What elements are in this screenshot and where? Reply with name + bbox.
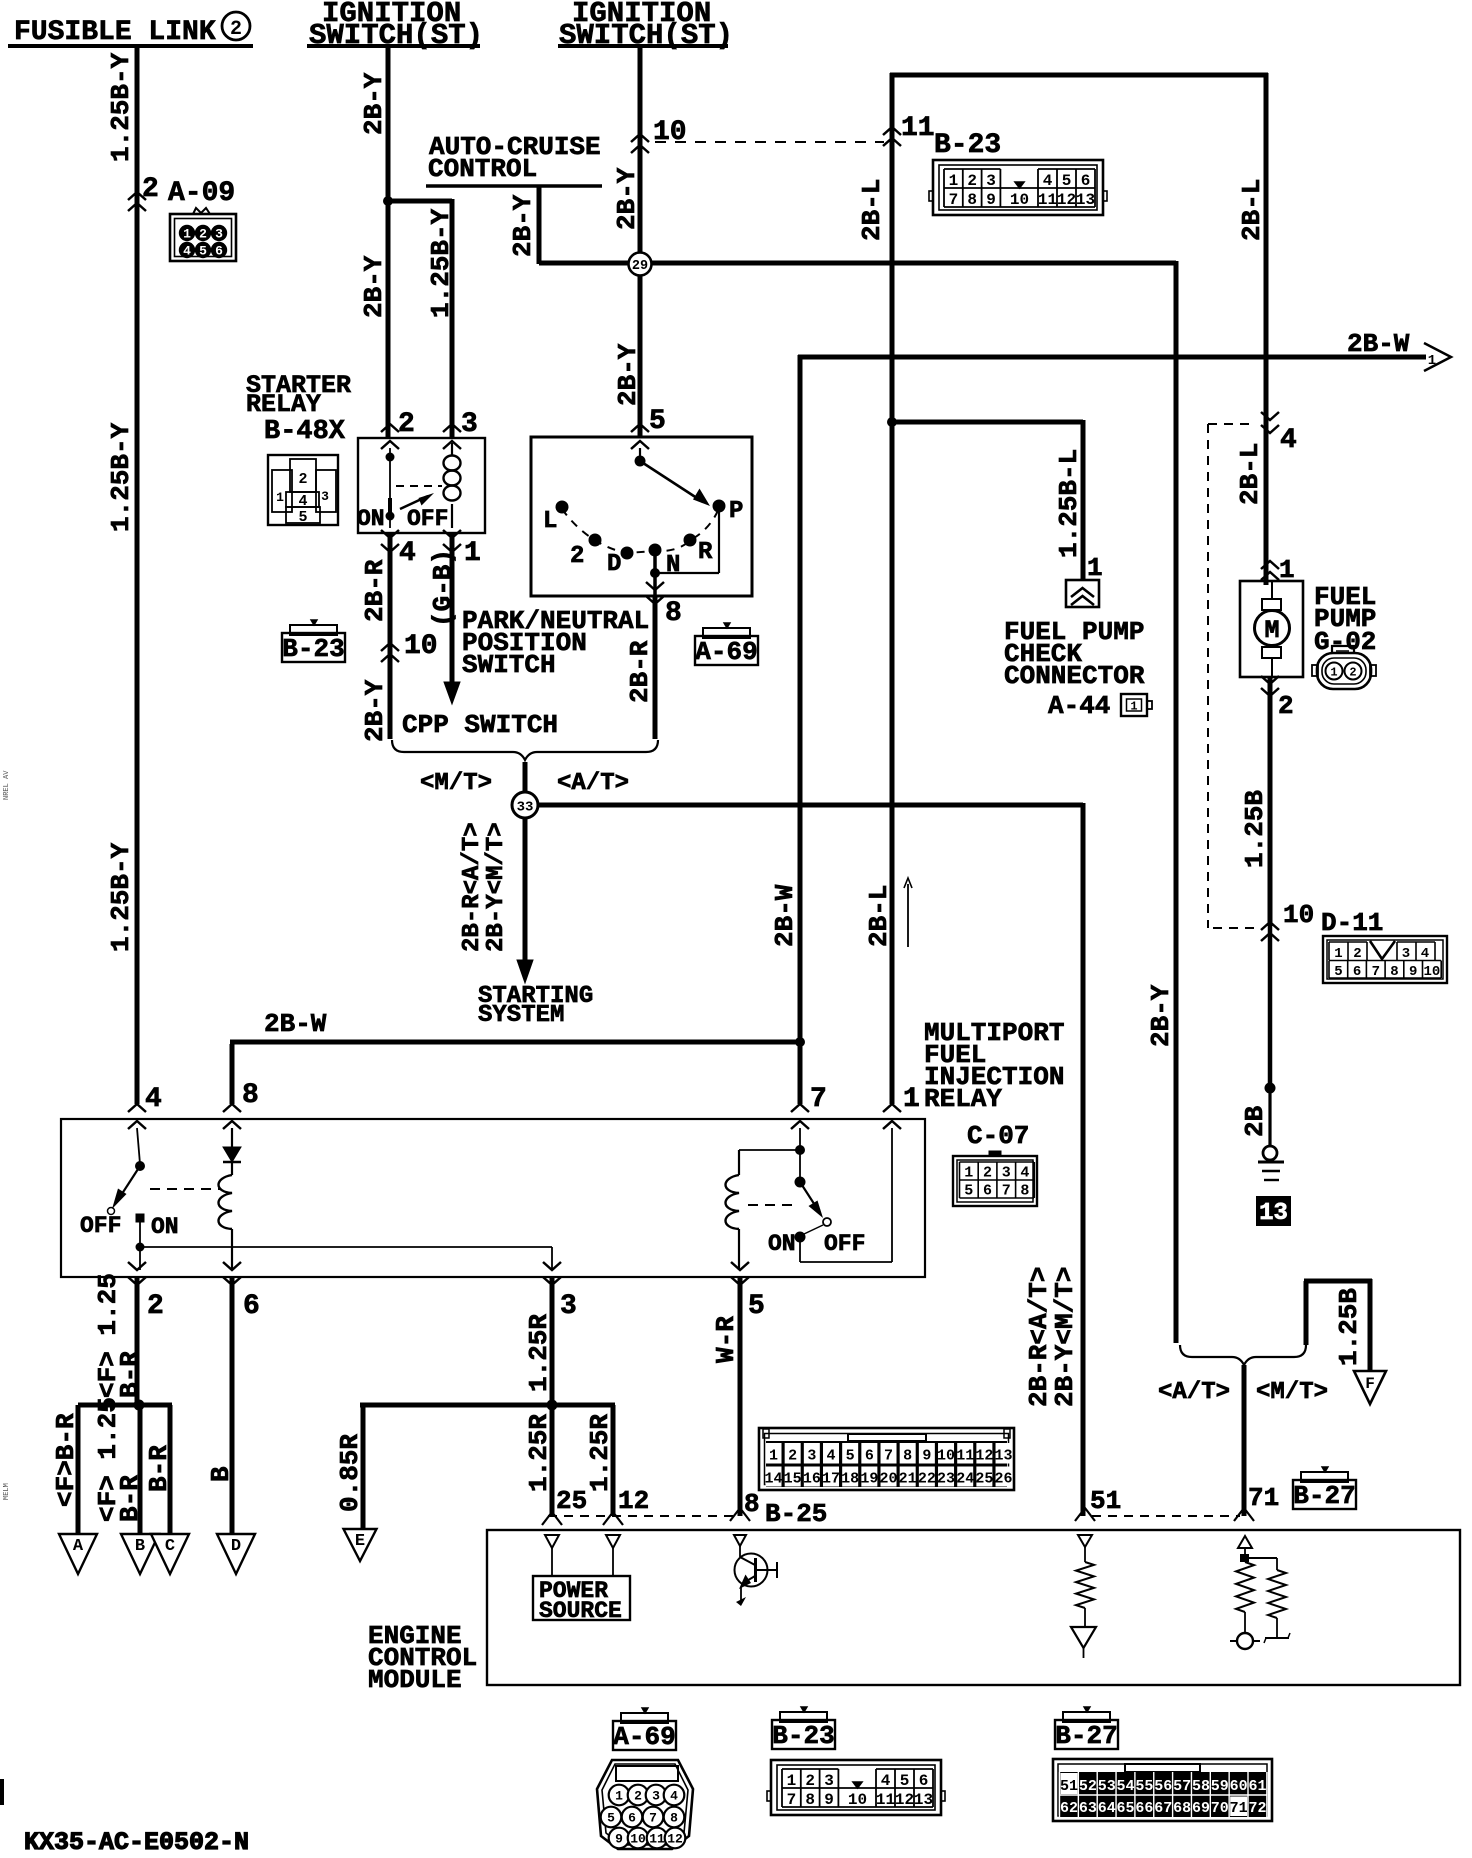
svg-text:15: 15 [784,1471,802,1488]
svg-text:A-09: A-09 [168,178,235,209]
svg-text:2B-R: 2B-R [625,640,655,703]
svg-text:7: 7 [649,1811,657,1826]
svg-text:57: 57 [1173,1778,1191,1795]
svg-text:7: 7 [1002,1183,1011,1200]
svg-text:7: 7 [810,1084,827,1115]
svg-text:9: 9 [922,1448,931,1465]
svg-text:4: 4 [1280,425,1297,456]
svg-text:2: 2 [1349,666,1356,680]
svg-text:B-48X: B-48X [264,417,346,447]
svg-text:2: 2 [230,18,242,41]
svg-text:3: 3 [461,409,478,440]
svg-text:13: 13 [914,1791,933,1809]
svg-text:N: N [666,552,680,579]
svg-text:ON: ON [768,1231,796,1257]
svg-text:B-23: B-23 [282,634,344,664]
svg-text:KX35-AC-E0502-N: KX35-AC-E0502-N [24,1828,249,1857]
svg-text:1: 1 [276,490,284,505]
svg-text:6: 6 [919,1772,929,1790]
svg-text:10: 10 [1010,191,1029,209]
svg-text:2: 2 [298,471,307,488]
svg-text:FUSIBLE LINK: FUSIBLE LINK [14,17,216,48]
svg-text:4: 4 [183,244,191,259]
svg-text:SYSTEM: SYSTEM [478,1002,564,1029]
svg-text:1.25B-Y: 1.25B-Y [106,52,136,162]
svg-text:2B-Y: 2B-Y [1146,984,1176,1047]
svg-text:2B-L: 2B-L [857,179,887,241]
svg-text:1: 1 [1330,666,1337,680]
svg-text:7: 7 [787,1791,797,1809]
svg-text:4: 4 [670,1789,678,1804]
svg-text:56: 56 [1154,1778,1172,1795]
svg-text:23: 23 [937,1471,955,1488]
svg-text:B-23: B-23 [934,130,1001,161]
svg-text:1: 1 [183,227,191,242]
svg-text:4: 4 [298,493,307,510]
svg-text:3: 3 [824,1772,834,1790]
svg-text:13: 13 [995,1448,1013,1465]
svg-text:2B-W: 2B-W [264,1009,327,1039]
svg-text:8: 8 [967,191,977,209]
svg-text:1: 1 [769,1448,778,1465]
svg-text:1.25B-L: 1.25B-L [1054,449,1084,558]
svg-text:3: 3 [986,172,996,190]
svg-text:4: 4 [1020,1165,1029,1182]
svg-text:NREL AV: NREL AV [3,770,11,800]
svg-text:2: 2 [967,172,977,190]
svg-text:2B-Y: 2B-Y [508,194,538,257]
svg-text:5: 5 [748,1291,765,1322]
svg-text:5: 5 [964,1183,973,1200]
svg-text:70: 70 [1211,1800,1229,1817]
svg-text:10: 10 [848,1791,867,1809]
svg-text:3: 3 [1002,1165,1011,1182]
svg-text:12: 12 [667,1832,683,1847]
svg-text:1.25B-Y: 1.25B-Y [106,842,136,952]
svg-text:8: 8 [1390,964,1398,980]
svg-text:66: 66 [1135,1800,1153,1817]
svg-text:2B-R: 2B-R [360,559,390,622]
svg-text:5: 5 [900,1772,910,1790]
svg-text:9: 9 [1409,964,1417,980]
svg-text:4: 4 [399,538,416,569]
svg-text:RELAY: RELAY [924,1084,1002,1114]
svg-text:33: 33 [517,800,534,816]
svg-text:55: 55 [1135,1778,1153,1795]
svg-text:<M/T>: <M/T> [420,770,492,797]
svg-text:<A/T>: <A/T> [1158,1379,1230,1406]
svg-text:69: 69 [1192,1800,1210,1817]
svg-text:6: 6 [865,1448,874,1465]
svg-text:SOURCE: SOURCE [539,1598,622,1624]
svg-text:62: 62 [1060,1800,1078,1817]
svg-text:16: 16 [803,1471,821,1488]
svg-text:8: 8 [805,1791,815,1809]
svg-text:8: 8 [903,1448,912,1465]
svg-text:<M/T>: <M/T> [1256,1379,1328,1406]
svg-text:5: 5 [1062,172,1072,190]
svg-text:3: 3 [807,1448,816,1465]
svg-text:19: 19 [860,1471,878,1488]
svg-text:4: 4 [145,1084,162,1115]
svg-text:1.25R: 1.25R [524,1414,554,1492]
svg-text:12: 12 [618,1486,649,1516]
svg-text:1.25B: 1.25B [1334,1288,1364,1366]
svg-text:4: 4 [1043,172,1053,190]
svg-text:7: 7 [1372,964,1380,980]
svg-text:24: 24 [956,1471,974,1488]
svg-text:10: 10 [653,117,687,148]
svg-text:7: 7 [884,1448,893,1465]
svg-text:10: 10 [1283,900,1314,930]
svg-text:MODULE: MODULE [368,1665,462,1695]
svg-text:6: 6 [243,1291,260,1322]
svg-text:4: 4 [827,1448,836,1465]
svg-text:65: 65 [1117,1800,1135,1817]
svg-text:B: B [135,1537,145,1556]
svg-text:2B-Y: 2B-Y [359,255,389,318]
svg-text:OFF: OFF [824,1231,865,1257]
svg-text:2B-Y: 2B-Y [612,167,642,230]
svg-text:6: 6 [1353,964,1361,980]
svg-text:(G-B): (G-B) [428,549,458,627]
svg-text:7: 7 [949,191,959,209]
svg-text:1.25R: 1.25R [585,1414,615,1492]
svg-text:5: 5 [649,406,666,437]
svg-text:22: 22 [918,1471,936,1488]
svg-text:2: 2 [570,543,584,570]
svg-text:1: 1 [615,1789,623,1804]
svg-text:<F>B-R: <F>B-R [51,1413,81,1507]
svg-text:61: 61 [1248,1778,1266,1795]
svg-text:2: 2 [398,409,415,440]
svg-text:58: 58 [1192,1778,1210,1795]
svg-text:2B-Y: 2B-Y [360,679,390,742]
svg-text:A: A [73,1537,84,1556]
svg-text:5: 5 [1334,964,1342,980]
svg-text:W-R: W-R [711,1316,741,1363]
svg-text:4: 4 [1421,946,1429,962]
svg-text:59: 59 [1211,1778,1229,1795]
svg-text:3: 3 [1402,946,1410,962]
svg-text:64: 64 [1098,1800,1116,1817]
svg-text:2B: 2B [1240,1105,1270,1137]
svg-text:12: 12 [1057,191,1076,209]
svg-text:11: 11 [649,1832,665,1847]
svg-text:D: D [231,1537,241,1556]
svg-text:12: 12 [975,1448,993,1465]
svg-text:60: 60 [1230,1778,1248,1795]
svg-text:2B-Y: 2B-Y [613,343,643,406]
svg-text:18: 18 [841,1471,859,1488]
svg-text:2: 2 [1278,691,1294,721]
svg-text:2B-L: 2B-L [1237,179,1267,241]
svg-text:2B-L: 2B-L [864,885,894,947]
svg-text:3: 3 [321,489,329,504]
svg-text:1.25B-Y: 1.25B-Y [426,208,456,318]
svg-text:9: 9 [824,1791,834,1809]
svg-text:1: 1 [1130,700,1137,714]
svg-text:51: 51 [1090,1486,1121,1516]
svg-text:5: 5 [298,509,307,526]
svg-text:13: 13 [1259,1200,1288,1227]
svg-text:1: 1 [903,1084,920,1115]
svg-text:ON: ON [151,1214,179,1240]
svg-text:A-69: A-69 [695,637,757,667]
svg-text:54: 54 [1117,1778,1135,1795]
svg-text:2: 2 [788,1448,797,1465]
svg-text:5: 5 [199,244,207,259]
svg-text:2B-L: 2B-L [1235,443,1265,505]
svg-text:1.25B: 1.25B [1240,790,1270,868]
svg-text:B-25: B-25 [765,1499,827,1529]
svg-text:10: 10 [937,1448,955,1465]
svg-text:3: 3 [215,227,223,242]
svg-text:CPP SWITCH: CPP SWITCH [402,710,558,740]
svg-text:2: 2 [634,1789,642,1804]
svg-text:4: 4 [881,1772,891,1790]
svg-text:2: 2 [1353,946,1361,962]
svg-text:12: 12 [895,1791,914,1809]
svg-text:3: 3 [560,1291,577,1322]
svg-text:14: 14 [764,1471,782,1488]
svg-text:R: R [698,539,713,566]
svg-text:52: 52 [1079,1778,1097,1795]
svg-text:A-69: A-69 [613,1722,675,1752]
svg-text:1: 1 [964,1165,973,1182]
svg-text:2: 2 [199,227,207,242]
svg-text:2: 2 [805,1772,815,1790]
svg-text:9: 9 [615,1832,623,1847]
svg-text:B-27: B-27 [1293,1481,1355,1511]
svg-text:8: 8 [665,598,682,629]
svg-text:1: 1 [1428,353,1436,369]
svg-text:1: 1 [464,538,481,569]
svg-text:11: 11 [901,113,935,144]
svg-text:5: 5 [607,1811,615,1826]
svg-text:2B-W: 2B-W [1347,329,1410,359]
svg-text:L: L [543,508,557,535]
svg-text:F: F [1365,1375,1375,1393]
svg-text:E: E [355,1532,365,1551]
svg-text:11: 11 [956,1448,974,1465]
svg-text:MELM: MELM [3,1483,11,1500]
svg-text:D: D [607,551,621,578]
svg-text:8: 8 [1020,1183,1029,1200]
svg-text:0.85R: 0.85R [335,1434,365,1512]
svg-text:6: 6 [628,1811,636,1826]
svg-text:10: 10 [404,631,438,662]
svg-text:20: 20 [880,1471,898,1488]
svg-text:29: 29 [632,259,648,274]
svg-text:CONTROL: CONTROL [428,154,537,184]
svg-text:67: 67 [1154,1800,1172,1817]
svg-text:2B-Y: 2B-Y [359,72,389,135]
svg-text:17: 17 [822,1471,840,1488]
svg-text:B-R: B-R [144,1445,174,1492]
svg-text:A-44: A-44 [1048,691,1110,721]
svg-text:OFF: OFF [80,1213,121,1239]
svg-text:SWITCH: SWITCH [462,650,556,680]
svg-text:8: 8 [670,1811,678,1826]
svg-text:3: 3 [652,1789,660,1804]
svg-text:6: 6 [983,1183,992,1200]
svg-text:C-07: C-07 [967,1121,1029,1151]
svg-text:1: 1 [787,1772,797,1790]
svg-text:1: 1 [1087,553,1103,583]
svg-text:B: B [206,1466,236,1482]
svg-text:<A/T>: <A/T> [557,770,629,797]
svg-text:9: 9 [986,191,996,209]
svg-text:5: 5 [846,1448,855,1465]
svg-text:ON: ON [357,506,385,532]
svg-text:CONNECTOR: CONNECTOR [1004,661,1145,691]
svg-text:25: 25 [975,1471,993,1488]
svg-text:68: 68 [1173,1800,1191,1817]
svg-text:OFF: OFF [407,506,448,532]
svg-text:6: 6 [1081,172,1091,190]
svg-text:25: 25 [556,1486,587,1516]
svg-text:RELAY: RELAY [246,390,321,419]
svg-text:13: 13 [1076,191,1095,209]
svg-text:63: 63 [1079,1800,1097,1817]
svg-text:C: C [165,1537,175,1556]
svg-text:11: 11 [1038,191,1057,209]
svg-text:2: 2 [147,1291,164,1322]
svg-text:2: 2 [142,174,159,205]
svg-text:51: 51 [1060,1778,1078,1795]
svg-text:26: 26 [995,1471,1013,1488]
svg-text:2: 2 [983,1165,992,1182]
svg-text:2B-R<A/T>2B-Y<M/T>: 2B-R<A/T>2B-Y<M/T> [459,822,510,952]
svg-text:10: 10 [630,1832,646,1847]
svg-text:2B-W: 2B-W [770,884,800,947]
svg-text:2B-R<A/T>2B-Y<M/T>: 2B-R<A/T>2B-Y<M/T> [1024,1267,1080,1407]
svg-text:1.25R: 1.25R [524,1314,554,1392]
svg-text:1.25B-Y: 1.25B-Y [106,422,136,532]
svg-text:M: M [1264,616,1279,645]
svg-text:P: P [729,498,743,525]
svg-text:6: 6 [215,244,223,259]
svg-text:21: 21 [899,1471,917,1488]
svg-text:71: 71 [1248,1483,1279,1513]
svg-text:10: 10 [1423,964,1440,980]
svg-text:53: 53 [1098,1778,1116,1795]
svg-text:71: 71 [1230,1800,1248,1817]
svg-text:8: 8 [242,1080,259,1111]
svg-text:B-23: B-23 [772,1721,834,1751]
svg-text:1: 1 [1334,946,1342,962]
svg-text:72: 72 [1248,1800,1266,1817]
svg-text:1: 1 [949,172,959,190]
svg-text:11: 11 [876,1791,895,1809]
svg-text:D-11: D-11 [1321,908,1383,938]
svg-text:B-27: B-27 [1055,1721,1117,1751]
